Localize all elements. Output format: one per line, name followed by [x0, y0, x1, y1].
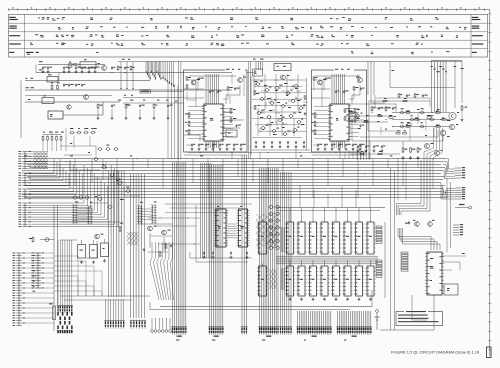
- CPU labels: [217, 206, 244, 229]
- keyboard connector rows B: [18, 173, 31, 186]
- main address/data bus: [22, 159, 445, 198]
- decoupling caps row (MDV1): [191, 143, 246, 150]
- video extra wires: [346, 98, 430, 135]
- RAM bank row 2: [285, 264, 376, 297]
- cluster dots: [256, 84, 302, 126]
- video tap wires: [345, 144, 361, 159]
- regulator VR1: [101, 239, 109, 257]
- video buffer gates: [399, 108, 434, 128]
- RAM bus drops: [300, 186, 370, 208]
- expansion connector col B: [31, 253, 43, 289]
- wire: [58, 73, 60, 81]
- resistor pack RP1 crosses: [256, 214, 278, 246]
- decoupling caps row (center): [255, 141, 306, 148]
- IC17 left pin wires: [314, 107, 330, 139]
- wire: [123, 95, 183, 98]
- wire: [380, 295, 434, 330]
- wire: [149, 302, 151, 310]
- connector J103 comb: [338, 311, 371, 325]
- wire: [246, 72, 256, 74]
- wire: [259, 152, 261, 159]
- wire: [142, 223, 172, 225]
- input buffer gates: [69, 128, 130, 208]
- bus drop bundle A: [173, 162, 186, 325]
- ground: [103, 259, 106, 262]
- wire: [390, 168, 392, 330]
- bundle continuation: [424, 128, 442, 160]
- keyboard column wires B: [28, 159, 69, 185]
- wire bundle: [368, 62, 374, 96]
- wire fan (membrane): [150, 262, 173, 300]
- resistor group R23-R24: [230, 108, 236, 123]
- resistor group R1-R8: [111, 66, 135, 71]
- video left transistor Q9: [355, 113, 363, 119]
- wire: [312, 154, 366, 156]
- video part pair: [396, 130, 407, 134]
- filter FB1: [226, 130, 237, 137]
- caption: [391, 350, 479, 355]
- wire: [184, 88, 204, 90]
- bus bundle to J13: [131, 174, 145, 318]
- RAM bank row 1: [285, 220, 376, 255]
- keyboard row wires: [28, 152, 48, 169]
- RAM top feeds: [290, 208, 371, 264]
- wire: [36, 72, 232, 74]
- RAM top bus: [276, 207, 385, 209]
- resistor R70: [29, 237, 34, 243]
- wire: [461, 61, 463, 103]
- CPU-ULA interconnect: [228, 224, 237, 238]
- bus junction taps: [60, 159, 433, 198]
- wire bundle below IC16: [206, 141, 219, 148]
- IPC right wires: [442, 253, 466, 270]
- parts pair at L1 input: [69, 62, 78, 66]
- wire: [25, 95, 112, 97]
- connector J6: [171, 325, 187, 337]
- ground: [92, 261, 95, 264]
- wire: [213, 141, 215, 152]
- wire: [196, 205, 248, 262]
- wire: [352, 85, 360, 104]
- power connector bar PL2: [87, 206, 93, 224]
- bank labels: [118, 100, 169, 101]
- edge connector feed wires: [54, 256, 102, 296]
- bus labels: [24, 155, 392, 156]
- battery B1: [375, 310, 380, 330]
- wire: [43, 133, 61, 135]
- bus drop bundle E: [281, 172, 292, 325]
- wire: [394, 171, 396, 330]
- MDV1 caps top: [209, 90, 222, 93]
- capacitor C25: [359, 124, 364, 127]
- IC 8049 IPC: [425, 252, 444, 295]
- wire: [371, 290, 373, 307]
- wire: [397, 158, 399, 201]
- resistor group R75-R78: [119, 226, 172, 257]
- power connector bar PL3: [137, 206, 143, 224]
- IC17 center label: [336, 118, 338, 121]
- wire: [189, 75, 236, 77]
- keyboard extra segs: [60, 143, 140, 203]
- keyboard connector rows A: [18, 151, 31, 169]
- video mid parts: [389, 115, 431, 125]
- inline resistors video: [350, 111, 446, 128]
- power connector bar PL4: [151, 205, 157, 223]
- gate row labels: [70, 128, 97, 129]
- membrane blocks: [57, 312, 72, 333]
- underside dots: [200, 151, 337, 154]
- wire: [375, 95, 390, 108]
- wire: [231, 152, 233, 159]
- MDV1 inner wires: [186, 78, 230, 145]
- notes box: [396, 311, 443, 326]
- wire: [339, 152, 341, 159]
- wire bundle into IC17: [332, 74, 345, 104]
- edge connector wires: [22, 253, 54, 323]
- IPC labels: [430, 258, 434, 281]
- keyboard column wires D: [28, 165, 118, 227]
- transistor Q15: [95, 234, 104, 239]
- test point labels: [28, 61, 43, 100]
- RAM inter-row address bus: [276, 256, 378, 264]
- wire: [454, 61, 456, 108]
- bus junction dots: [66, 158, 431, 195]
- transistor Q5: [281, 75, 290, 80]
- wire: [412, 295, 427, 320]
- connector J7: [208, 325, 224, 337]
- resistor group R44-R45: [344, 108, 350, 121]
- net label: [175, 101, 177, 102]
- address label curtain: [146, 62, 162, 80]
- connector J103: [336, 325, 372, 337]
- wire right of MDV2: [368, 100, 370, 159]
- diode D20: [40, 238, 54, 242]
- wire: [352, 133, 420, 141]
- decoupling caps row (MDV2): [317, 143, 365, 150]
- wire: [420, 136, 443, 141]
- stub lines +5V: [120, 59, 133, 89]
- connector stubs SK3: [453, 224, 463, 235]
- label column: [33, 255, 36, 292]
- resistor group center: [254, 90, 306, 115]
- svg-text:FIGURE 1.5 QL CIRCUIT DIAGRAM: FIGURE 1.5 QL CIRCUIT DIAGRAM (Issue 6) …: [391, 350, 479, 355]
- cpu area interconnects: [148, 218, 200, 252]
- table misc text: [26, 52, 39, 53]
- transistor Q17: [162, 230, 171, 235]
- connector stubs SK2: [455, 187, 465, 199]
- bus bundle to J12: [109, 170, 125, 297]
- video lower chain: [350, 151, 400, 155]
- wire: [295, 148, 297, 159]
- video top chain: [370, 98, 430, 102]
- transistor Q16: [148, 226, 157, 231]
- component locator table frame: [9, 14, 488, 57]
- connector J13: [130, 320, 146, 329]
- wire: [402, 141, 404, 147]
- video labels extra: [350, 109, 451, 136]
- video wires: [392, 113, 450, 127]
- wire comb: [201, 163, 212, 258]
- resistor pair R0: [51, 82, 60, 90]
- connector comb: [256, 62, 263, 71]
- wire: [371, 95, 385, 103]
- diode matrix D1-D16: [34, 152, 48, 169]
- sheet right frame: [488, 10, 491, 356]
- connector J14 round pads: [151, 318, 172, 332]
- bus drop bundle B: [210, 165, 223, 325]
- wire: [57, 205, 59, 305]
- resistor group R40-R43: [371, 106, 396, 112]
- labels power: [75, 201, 157, 223]
- wire bundle outer: [358, 152, 370, 160]
- resistor group R30-R32: [312, 112, 316, 135]
- transistor Q7: [356, 77, 362, 83]
- cluster vertical stubs: [255, 83, 304, 133]
- logic gate cluster: [255, 81, 305, 136]
- expansion connector col A: [12, 253, 25, 326]
- wire: [223, 127, 240, 129]
- cluster interconnect wires: [252, 80, 306, 138]
- transistor Q11: [449, 124, 458, 130]
- power rails: [60, 296, 150, 300]
- crystal box X2: [444, 284, 458, 295]
- routing staircase upper: [397, 160, 431, 215]
- wire: [149, 233, 151, 248]
- resistor group R46-R48 with grounds: [402, 147, 422, 159]
- capacitor group C30-C33: [357, 145, 386, 152]
- modulator box: [274, 64, 291, 71]
- resistor group R20-R22: [185, 112, 190, 135]
- resistor R49: [461, 105, 468, 121]
- keyboard connector rows D: [18, 203, 31, 227]
- stub with pad: [455, 204, 472, 209]
- MDV2 upper parts: [313, 74, 364, 99]
- connector J8: [241, 325, 248, 335]
- gate trio: [72, 196, 90, 199]
- wire: [184, 97, 204, 99]
- capacitor C15: [235, 124, 241, 127]
- label: [253, 59, 264, 60]
- resistor pack RP4: [401, 252, 408, 271]
- pullup labels: [43, 132, 64, 133]
- membrane riser wires: [150, 242, 172, 262]
- cluster vertical wires: [254, 74, 298, 124]
- wire: [25, 78, 150, 81]
- wire: [360, 130, 438, 137]
- address comb 1: [281, 227, 284, 252]
- grid ruler: [9, 7, 490, 11]
- ground row: [42, 70, 97, 73]
- wire: [25, 87, 232, 90]
- video verticals: [410, 113, 434, 141]
- wire: [315, 75, 360, 77]
- wire: [53, 205, 55, 331]
- junction dots video: [372, 112, 442, 127]
- wire: [349, 111, 355, 113]
- IC ZX8301 ULA: [237, 209, 250, 247]
- connector J12: [104, 299, 125, 329]
- registration mark: [487, 347, 492, 358]
- wire: [223, 111, 231, 113]
- wire bundle: [432, 61, 447, 112]
- wire: [405, 162, 407, 201]
- resistor pack RP3: [376, 260, 382, 277]
- wire: [184, 135, 200, 141]
- wire: [163, 237, 165, 251]
- junction dots: [42, 72, 125, 73]
- top rail: [431, 60, 462, 62]
- IC16 left pin wires: [188, 107, 204, 139]
- wire: [60, 239, 77, 241]
- buffer gate array: [268, 205, 280, 249]
- coil L3: [42, 95, 54, 103]
- pull-up resistor bank: [42, 136, 62, 152]
- transistor Q2: [84, 95, 89, 100]
- MDV2 inner wires: [313, 78, 324, 145]
- IC 68008 CPU: [214, 209, 228, 247]
- MDV1 upper parts: [186, 74, 244, 100]
- connector J102: [296, 325, 332, 337]
- video left wire: [345, 116, 392, 122]
- bus drop bundle D: [260, 168, 279, 325]
- wire: [349, 119, 364, 121]
- wire with label box: [140, 90, 183, 93]
- wire pair left of MDV1: [179, 62, 181, 159]
- IC16 center label: [210, 118, 213, 121]
- bus drop bundle C: [242, 155, 246, 325]
- table content references: [27, 17, 467, 55]
- net labels: [431, 66, 464, 72]
- wire: [63, 102, 103, 115]
- wire: [384, 222, 386, 298]
- resistor pack RP2: [376, 226, 382, 243]
- wire: [339, 141, 341, 152]
- wire bundle below IC17: [332, 141, 345, 148]
- wire: [226, 85, 240, 104]
- microdrive 1 box: [184, 69, 248, 152]
- wire: [190, 252, 252, 258]
- transistor Q2b: [67, 105, 71, 109]
- capacitor C50: [405, 221, 410, 224]
- ground: [80, 261, 83, 264]
- diode matrix D25-D30: [127, 232, 138, 245]
- transistor Q6: [318, 79, 326, 85]
- wire: [311, 88, 330, 90]
- IC17 (MDV2 driver): [328, 104, 351, 141]
- capacitor C41: [90, 240, 98, 258]
- capacitor group C9-C12: [63, 84, 85, 87]
- RAM mux IC37: [257, 264, 268, 297]
- wire: [252, 149, 310, 151]
- transistor Q1: [102, 66, 107, 71]
- resistor/capacitor bank with grounds: [97, 104, 173, 120]
- wire: [390, 62, 455, 88]
- connector J10: [279, 325, 292, 335]
- IC16 (MDV1 driver): [202, 104, 225, 141]
- power bar wires 2: [142, 209, 153, 219]
- fuse F1: [49, 303, 56, 319]
- transistor Q12: [440, 130, 449, 137]
- IC17 right pin wires: [349, 109, 359, 137]
- bus right bends: [441, 159, 455, 199]
- RAM ground row: [289, 298, 373, 301]
- wire: [108, 221, 120, 223]
- cluster labels: [254, 81, 305, 135]
- cluster rails: [251, 76, 307, 155]
- below-bus wires: [165, 204, 252, 213]
- wire: [51, 131, 53, 134]
- decoupling caps row (CPU): [203, 252, 249, 259]
- top supply rail: [118, 61, 462, 63]
- long drop lines: [168, 82, 178, 159]
- transistor Q10: [449, 112, 459, 120]
- membrane connector J11: [57, 240, 73, 313]
- table row labels: [9, 17, 483, 53]
- wire: [223, 119, 244, 121]
- connector stubs SK1: [455, 167, 465, 178]
- resistor group R33-R34: [354, 108, 360, 123]
- transistor Q4: [238, 77, 246, 83]
- RAM top bus 2: [276, 210, 380, 212]
- oscillator module U0: [48, 111, 63, 119]
- routing staircase lower: [398, 228, 440, 250]
- cluster stubs: [254, 80, 308, 124]
- wire: [184, 154, 247, 156]
- bottom rail 2: [150, 309, 350, 311]
- wire: [188, 152, 360, 154]
- coil L2: [47, 74, 58, 82]
- microdrive 2 box: [312, 69, 367, 152]
- left collector line: [20, 81, 22, 139]
- wire pair right of MDV1: [248, 62, 250, 159]
- RAM mux IC36: [257, 220, 268, 255]
- diode cluster 1: [269, 226, 277, 248]
- transistor Q3: [191, 79, 200, 85]
- capacitor C40: [78, 240, 86, 258]
- wire: [123, 103, 183, 105]
- MDV2 caps top: [335, 90, 349, 93]
- wire: [369, 141, 371, 159]
- coil L1: [80, 59, 100, 68]
- address comb 2: [281, 268, 284, 290]
- address label curtain 2: [163, 62, 175, 88]
- cluster input box: [253, 69, 263, 76]
- wire: [311, 97, 330, 99]
- IC16 right pin wires: [223, 109, 233, 137]
- power bar wires: [78, 209, 89, 222]
- diode cluster 2: [269, 269, 277, 289]
- capacitor group C1-C8: [42, 66, 100, 69]
- connector labels: [176, 340, 346, 341]
- wire: [86, 241, 97, 258]
- wire: [60, 221, 108, 223]
- video extra parts: [398, 93, 428, 98]
- connector J102 comb: [298, 311, 331, 325]
- video transistor Q14: [435, 150, 443, 156]
- wire: [35, 65, 37, 73]
- video transistor Q13: [425, 143, 434, 149]
- keyboard connector rows C: [18, 189, 31, 200]
- wire: [450, 182, 452, 248]
- wire bundle into IC16: [206, 74, 219, 104]
- wire: [446, 178, 448, 252]
- connector J9: [258, 325, 279, 337]
- transistor Q20: [413, 220, 419, 227]
- keyboard column wires C: [28, 162, 83, 199]
- cluster vertical wires 2: [258, 108, 294, 136]
- transistor Q21: [428, 220, 435, 227]
- wire: [25, 101, 120, 103]
